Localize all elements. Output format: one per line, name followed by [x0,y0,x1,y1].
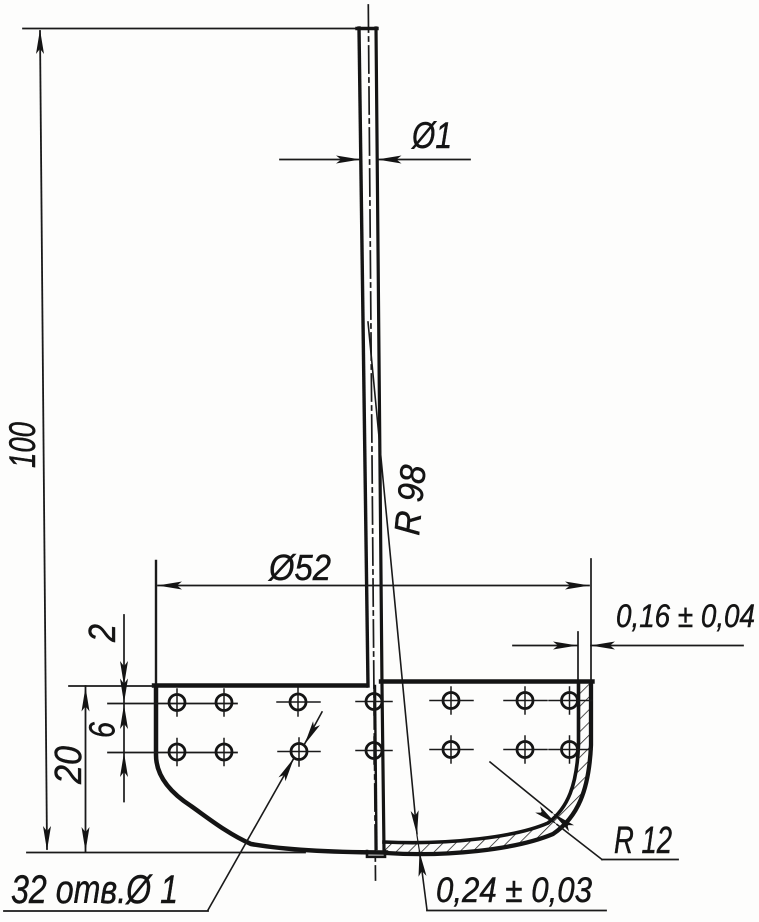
svg-text:100: 100 [2,422,43,468]
extension line: wall outer edge above rim [590,559,592,680]
row center line 2 (left) [108,752,237,754]
svg-text:0,24 ± 0,03: 0,24 ± 0,03 [436,871,592,910]
holes row 1 left [169,694,382,711]
wire: top extension line for 100 [23,28,358,30]
rod left edge [359,28,368,686]
rod left edge below rim [375,686,377,849]
dimension 0,24 lower line [420,852,428,911]
svg-text:32 отв.Ø 1: 32 отв.Ø 1 [11,868,178,912]
svg-text:20: 20 [48,746,90,785]
bowl rim right (thick) [381,679,593,683]
dimension Ø52 line [158,585,589,587]
svg-text:R 98: R 98 [386,463,434,537]
holes row 1 right [443,693,578,709]
svg-text:2: 2 [82,624,124,643]
dimension 2/6 vertical line [123,615,125,802]
extension line: wall inner edge above rim [577,632,579,684]
R98 leader line [368,322,417,834]
svg-text:Ø52: Ø52 [268,547,331,588]
holes row 2 left [169,743,382,761]
bowl rim left (thick) [154,683,366,687]
extension line: bowl left wall above rim [155,561,157,686]
label 32 отв.Ø 1 with underline [4,910,208,912]
rod (handle) top cap [357,27,377,30]
dimension 0,16 line right [591,645,743,647]
wire: rim extension to left [69,685,154,687]
leader 32 holes [208,758,294,910]
dimension Ø1 line right [378,159,471,161]
leader R 12 [602,859,678,861]
hatched wall section (right half) [384,682,591,854]
row center line 1 (left) [108,703,237,705]
bowl inner edge right half (thick) [384,682,579,843]
dimension 100 vertical line [40,31,47,849]
wire: bottom extension line [27,852,305,854]
bowl outer edge right half (thick) [386,682,591,854]
inner radius arrow [490,762,552,813]
svg-text:0,16 ± 0,04: 0,16 ± 0,04 [616,598,755,634]
centerline (rod axis, dash-dot) [368,5,375,880]
svg-text:6: 6 [82,721,123,738]
dimension 0,16 line left [513,645,577,647]
rod right edge [376,28,384,850]
label 0,24 ± 0,03 with underline [427,910,606,912]
rod bottom cap [367,851,385,857]
bowl outline left half (exterior, thick) [156,686,386,853]
dimension 20 vertical line [85,686,87,852]
hole center crosses [177,687,592,766]
svg-text:R 12: R 12 [614,820,672,862]
dimension Ø1 line left [280,159,360,161]
holes row 2 right [443,742,578,758]
svg-text:Ø1: Ø1 [410,115,452,156]
